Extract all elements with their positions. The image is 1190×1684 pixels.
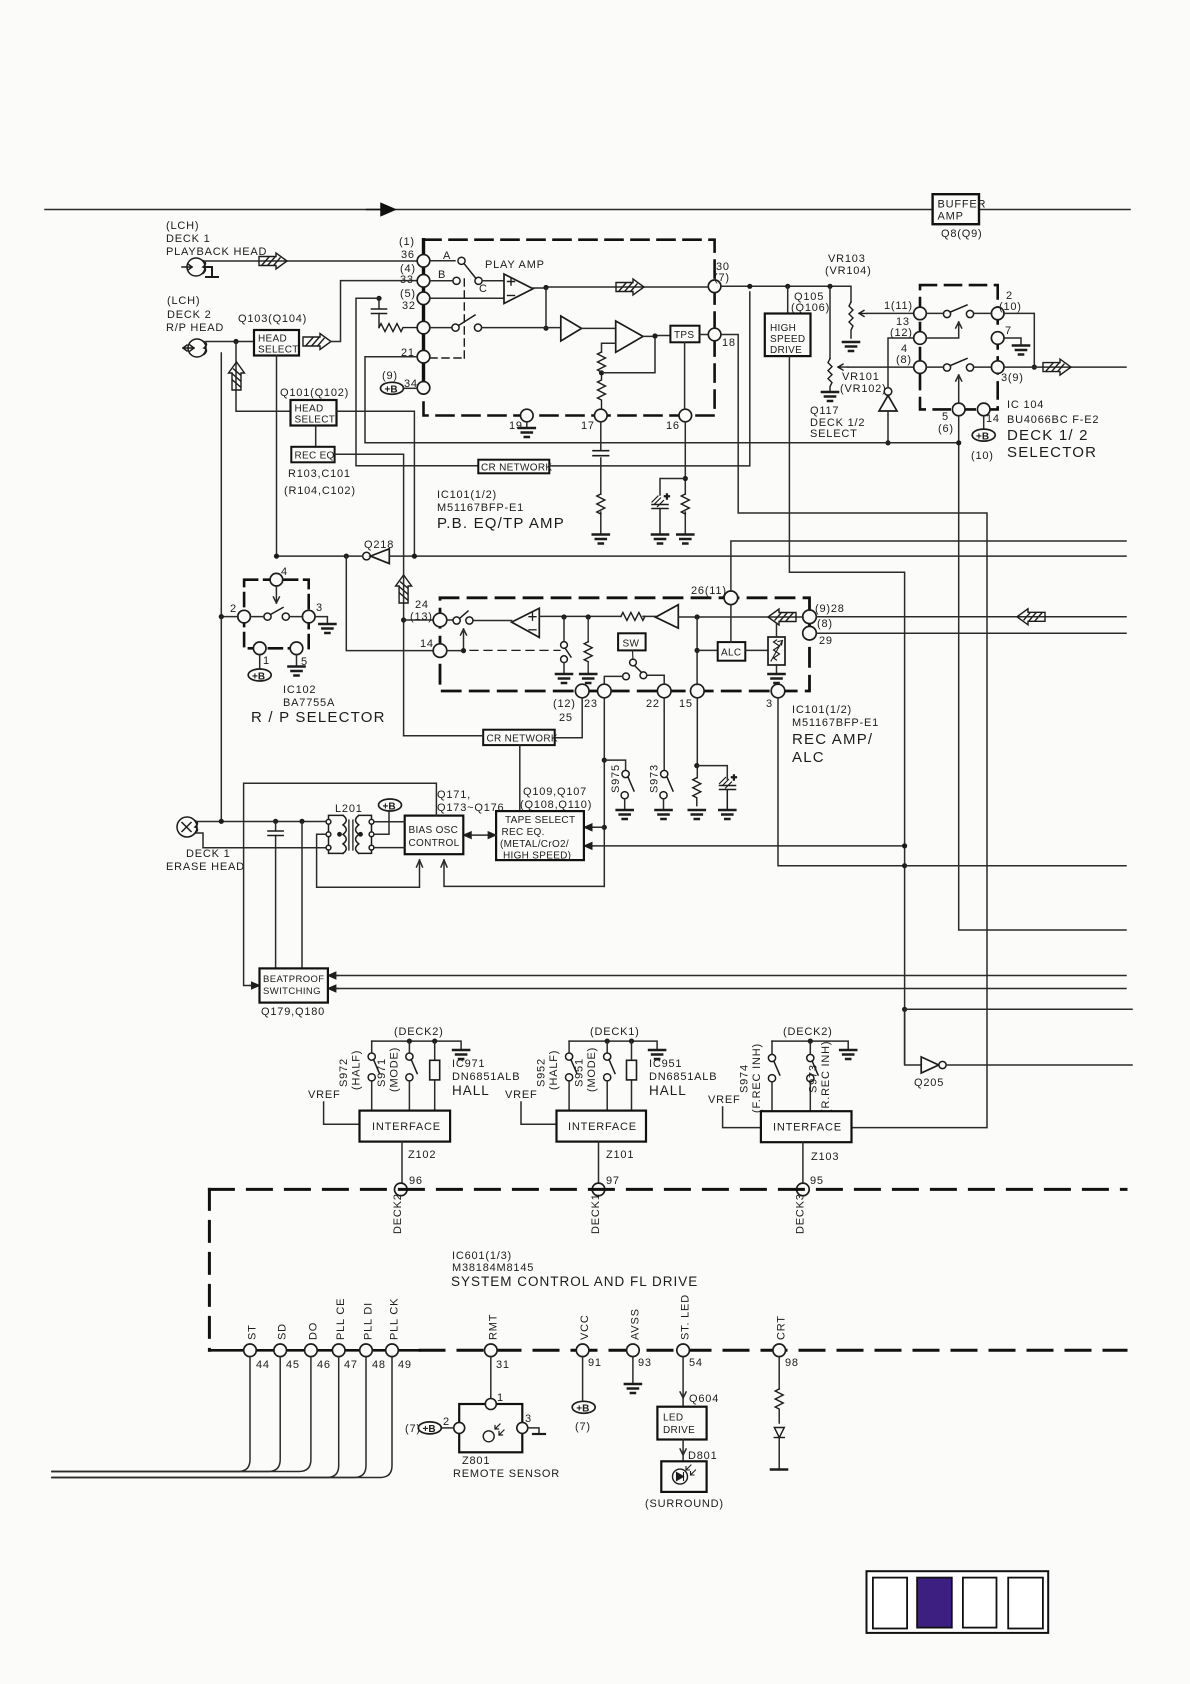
- svg-text:29: 29: [819, 635, 833, 647]
- IC102 R/P selector dashed box: [244, 580, 309, 649]
- svg-text:3(9): 3(9): [1001, 372, 1024, 384]
- ground at IC102 pin 3: [319, 624, 335, 633]
- wire amp to pin 28: [678, 616, 803, 618]
- wire Z103 to pin 95: [802, 1142, 804, 1183]
- ground at pin 93: [625, 1384, 641, 1393]
- VR (variable resistor in box): [768, 637, 785, 665]
- +B supply oval at IC104 pin 14: [971, 416, 995, 462]
- svg-text:IC101(1/2): IC101(1/2): [437, 489, 497, 501]
- svg-text:ALC: ALC: [792, 749, 825, 766]
- junction deck2 inh vertical at arrow line: [902, 843, 907, 848]
- svg-text:46: 46: [317, 1359, 331, 1371]
- svg-text:Q103(Q104): Q103(Q104): [238, 313, 307, 325]
- svg-text:BU4066BC F-E2: BU4066BC F-E2: [1007, 414, 1099, 426]
- label VR103 (VR104): [825, 253, 872, 277]
- potentiometer VR103: [849, 302, 867, 338]
- label Q105 (Q106): [791, 291, 830, 314]
- IC102 pin 5: [290, 642, 308, 668]
- svg-text:(Q106): (Q106): [791, 302, 830, 314]
- wire junction down to pin 15: [696, 617, 698, 685]
- IC601 pin 98 CRT: [773, 1315, 799, 1369]
- capacitor C in beatproof branch: [268, 821, 283, 968]
- wire CR network 2 bottom to tape select: [519, 745, 521, 811]
- svg-text:45: 45: [286, 1359, 300, 1371]
- label IC101(1/2) M51167BFP-E1 P.B. EQ/TP AMP: [437, 489, 565, 532]
- junction pin3 bus at deck2 inh vertical: [902, 863, 907, 868]
- IC104 dashed box: [920, 285, 998, 409]
- svg-text:(7): (7): [575, 1421, 591, 1433]
- ground at IC104 pin 7: [1013, 346, 1029, 355]
- dashed control line from pin 21 to switches: [430, 277, 464, 358]
- junction rail S971: [407, 1039, 412, 1044]
- svg-text:M51167BFP-E1: M51167BFP-E1: [437, 502, 524, 514]
- svg-text:96: 96: [409, 1175, 423, 1187]
- svg-text:P.B. EQ/TP AMP: P.B. EQ/TP AMP: [437, 515, 565, 532]
- CR NETWORK box 1: [478, 460, 552, 474]
- wire Q218 output node: [277, 555, 363, 557]
- wire VREF into interface Z102: [324, 1102, 360, 1124]
- wire high speed drive bottom down right down (to deck2 inh bus): [789, 356, 904, 1064]
- wire deck2 return continues down to erase head: [220, 617, 222, 822]
- Z801 pin 2: [443, 1416, 465, 1433]
- svg-text:L201: L201: [335, 803, 363, 815]
- wire pin 25(12) down to CR network 2: [555, 698, 583, 738]
- ground at VR: [769, 674, 785, 683]
- svg-text:(R.REC INH): (R.REC INH): [820, 1041, 832, 1113]
- svg-text:24: 24: [415, 599, 429, 611]
- junction erase head / deck2 return: [219, 819, 224, 824]
- IC101 P.B. EQ/TP AMP dashed box: [424, 240, 715, 416]
- SW box: [618, 633, 646, 650]
- wire stage2 to stage3: [582, 327, 616, 329]
- high speed drive box: [765, 314, 811, 357]
- wire pin 93 to ground: [632, 1357, 634, 1383]
- IC104 pin 1(11): [884, 300, 926, 320]
- IC601 pin 48 PLL DI: [360, 1302, 386, 1371]
- svg-text:VR103: VR103: [828, 253, 866, 265]
- +B supply oval at pin 91: [572, 1401, 595, 1433]
- svg-text:S951: S951: [574, 1058, 586, 1087]
- inverter Q218: [363, 549, 390, 564]
- buffer amp stage 2 triangle: [561, 316, 582, 341]
- svg-text:+B: +B: [976, 431, 989, 442]
- svg-text:RMT: RMT: [487, 1314, 499, 1340]
- wire pin 7 to ground: [1004, 338, 1021, 345]
- junction on feedback divider: [599, 370, 604, 375]
- main top bus wire: [45, 209, 1130, 211]
- +B supply oval at pin 34: [381, 382, 418, 395]
- ground below VR103: [843, 342, 859, 351]
- ground at shunt switch: [556, 674, 572, 683]
- LED DRIVE box: [657, 1407, 706, 1440]
- REC AMP pin 26(11): [691, 585, 738, 605]
- page marker box 3: [963, 1578, 997, 1628]
- wire Q117 input from control bus: [887, 411, 889, 443]
- svg-text:CR NETWORK: CR NETWORK: [481, 463, 552, 474]
- TPS box: [670, 326, 699, 343]
- svg-text:PLL CE: PLL CE: [335, 1298, 347, 1340]
- svg-text:DECK 1: DECK 1: [186, 848, 231, 860]
- hatched arrow (left) on pin28 bus: [1017, 609, 1045, 625]
- REC AMP pin 15: [679, 684, 704, 710]
- svg-text:DECK 1/ 2: DECK 1/ 2: [1007, 427, 1089, 444]
- svg-text:(HALF): (HALF): [351, 1050, 363, 1090]
- switch on feedback row: [430, 315, 482, 331]
- resistor R below pin 15: [693, 778, 701, 806]
- junction at stage3 output: [652, 333, 657, 338]
- wire Q218 output branch down to IC101 pin 14: [346, 556, 434, 651]
- IC104 pin 14: [977, 403, 999, 425]
- svg-text:Z102: Z102: [408, 1149, 436, 1161]
- IC601 pin 93 AVSS: [627, 1308, 652, 1369]
- svg-text:SWITCHING: SWITCHING: [263, 986, 321, 997]
- svg-text:(1): (1): [399, 236, 415, 248]
- IC601 pin 31 RMT: [485, 1314, 510, 1371]
- IC101 pin 19: [509, 409, 533, 432]
- svg-text:DO: DO: [307, 1322, 319, 1340]
- svg-text:R103,C101: R103,C101: [288, 468, 351, 480]
- svg-text:2: 2: [443, 1416, 450, 1428]
- wire IC102 pin 3 to ground: [315, 617, 327, 624]
- hatched arrow on IC104 output: [1043, 359, 1071, 375]
- ground below pin 15 resistor: [689, 810, 705, 819]
- resistor R below pin 98: [775, 1389, 783, 1423]
- wire resistor to stage2 amp: [643, 615, 656, 618]
- page marker box 2 (active, purple): [917, 1578, 952, 1628]
- svg-text:+B: +B: [252, 671, 265, 682]
- wire Q103 box bottom down to Q218 output node: [276, 356, 278, 557]
- capacitor C below pin 17: [593, 451, 609, 456]
- REC AMP pin 14: [420, 638, 447, 657]
- IC101 pin (feedback): [417, 321, 430, 334]
- svg-text:SELECTOR: SELECTOR: [1007, 444, 1097, 461]
- IC601 pin 44 ST: [244, 1324, 270, 1371]
- junction rail resistor: [432, 1039, 437, 1044]
- IC104 pin 7: [991, 325, 1012, 344]
- wire pin 98 down: [778, 1357, 780, 1389]
- svg-text:97: 97: [606, 1175, 620, 1187]
- wire pin 3(9) output to right: [1004, 366, 1126, 368]
- hall resistor deck2: [430, 1041, 440, 1111]
- svg-text:91: 91: [588, 1357, 602, 1369]
- resistor R feedback upper: [598, 352, 606, 373]
- svg-text:IC102: IC102: [283, 684, 316, 696]
- junction deck2-inh vertical / lower bus: [902, 1007, 907, 1012]
- svg-text:BIAS OSC: BIAS OSC: [409, 825, 459, 836]
- output amp stage 3 triangle: [616, 321, 643, 352]
- svg-text:Q8(Q9): Q8(Q9): [941, 228, 982, 240]
- signal-direction arrow on top bus: [366, 204, 395, 216]
- svg-text:(F.REC INH): (F.REC INH): [751, 1043, 763, 1113]
- inverter Q117: [879, 388, 897, 411]
- wire deck2-inh vertical into Q205: [905, 1009, 922, 1065]
- arrow into beatproof left: [252, 982, 260, 989]
- svg-text:15: 15: [679, 698, 693, 710]
- ground below electrolytic: [719, 810, 735, 819]
- transformer L201: [326, 815, 374, 853]
- wire pin3 bus to page edge: [905, 865, 1126, 867]
- wire VREF into interface Z101: [521, 1102, 557, 1124]
- svg-text:Q205: Q205: [914, 1077, 944, 1089]
- wire Q117 output up and to IC104 pin 13(12): [888, 338, 913, 388]
- IC104 switch 1: [927, 305, 992, 318]
- interface box Z102: [360, 1111, 451, 1142]
- svg-text:IC971: IC971: [452, 1058, 485, 1070]
- svg-text:19: 19: [509, 420, 523, 432]
- IC101 REC AMP/ALC dashed box: [440, 598, 810, 691]
- svg-text:+B: +B: [423, 1424, 436, 1435]
- svg-text:(HALF): (HALF): [548, 1050, 560, 1090]
- svg-text:(7): (7): [405, 1423, 421, 1435]
- svg-text:+B: +B: [576, 1404, 589, 1415]
- svg-text:S973: S973: [649, 764, 661, 793]
- svg-text:54: 54: [689, 1357, 703, 1369]
- wire tee to electrolytic: [660, 479, 685, 496]
- IC101 pin 36: [399, 236, 430, 267]
- svg-text:(10): (10): [999, 301, 1022, 313]
- svg-text:SELECT: SELECT: [258, 345, 299, 356]
- svg-text:BA7755A: BA7755A: [283, 697, 335, 709]
- ground at S975: [617, 810, 633, 819]
- IC104 pin 13(12): [890, 316, 926, 344]
- svg-text:REMOTE SENSOR: REMOTE SENSOR: [453, 1468, 560, 1480]
- hatched arrow on play amp output: [616, 279, 644, 295]
- svg-text:47: 47: [344, 1359, 358, 1371]
- deck 2 R/P head symbol: [183, 339, 207, 357]
- wire TPS to pin 18: [700, 334, 709, 336]
- op-amp U2 rec amp: [512, 608, 540, 637]
- ground at S973: [656, 810, 672, 819]
- wire pin 22 down to S973: [663, 698, 665, 771]
- wire switch to buffer triangle: [482, 327, 561, 329]
- wire L201 right centre tap to +B: [374, 811, 389, 834]
- svg-text:ALC: ALC: [721, 648, 741, 659]
- IC104 pin 5(6): [938, 403, 965, 435]
- svg-text:2: 2: [230, 603, 237, 615]
- ground at shunt resistor: [580, 674, 596, 683]
- junction output / pin15 drop: [695, 614, 700, 619]
- wire lower bus right to page edge: [905, 1008, 1132, 1010]
- wire bias osc top loop to beatproof: [244, 783, 437, 985]
- REC AMP pin 3: [766, 684, 785, 710]
- wire deck2 return down left vertical: [220, 353, 222, 617]
- interface box Z101: [557, 1111, 647, 1142]
- svg-text:LED: LED: [663, 1413, 683, 1424]
- amp stage (left-pointing triangle): [656, 605, 679, 629]
- wire pin 30 to VR103 top corner: [721, 286, 851, 302]
- ground below VR101: [822, 392, 838, 401]
- switch S951 (MODE): [574, 1041, 616, 1111]
- label (LCH) DECK 1 PLAYBACK HEAD: [166, 220, 267, 258]
- diode D below pin 98: [774, 1428, 784, 1469]
- hatched arrow after Q103 head select: [303, 334, 331, 350]
- svg-text:(LCH): (LCH): [166, 220, 199, 232]
- label IC101(1/2) M51167BFP-E1 REC AMP/ ALC: [792, 704, 879, 766]
- switch S975: [610, 764, 634, 809]
- svg-text:HEAD: HEAD: [258, 334, 287, 345]
- svg-text:INTERFACE: INTERFACE: [568, 1121, 637, 1133]
- label IC951 DN6851ALB HALL: [649, 1058, 717, 1098]
- wire VR top to signal line: [776, 623, 778, 637]
- REC AMP input switch: [447, 611, 473, 624]
- svg-text:Z801: Z801: [462, 1455, 490, 1467]
- svg-text:IC601(1/3): IC601(1/3): [452, 1250, 512, 1262]
- Z801 pin 3: [517, 1413, 532, 1433]
- svg-text:25: 25: [559, 712, 573, 724]
- svg-text:18: 18: [722, 337, 736, 349]
- svg-text:S973: S973: [808, 1064, 820, 1093]
- junction Q218 output / Q103 drop: [274, 554, 279, 559]
- wire CR network1 right up to pin30 bus: [549, 292, 750, 466]
- REC AMP pin 25(12): [553, 684, 589, 724]
- wire IC102 pin 2 to deck2 return vertical: [221, 616, 238, 618]
- svg-text:(7): (7): [714, 272, 730, 284]
- interface box Z103: [761, 1111, 852, 1142]
- +B supply oval at IC102 pin 1: [248, 669, 271, 682]
- label IC102 BA7755A R / P SELECTOR: [251, 684, 386, 726]
- wire VREF into interface Z103: [723, 1107, 761, 1128]
- svg-text:Q604: Q604: [689, 1393, 719, 1405]
- wire deck2 head to HEAD SELECT Q103: [206, 341, 254, 343]
- switch A/B/C input selector: [430, 250, 488, 295]
- label DECK 1 ERASE HEAD: [166, 848, 245, 873]
- svg-text:S952: S952: [536, 1058, 548, 1087]
- REC AMP pin 24(13): [410, 599, 447, 627]
- svg-text:DECK2: DECK2: [392, 1193, 404, 1234]
- svg-text:(VR102): (VR102): [840, 383, 887, 395]
- svg-text:22: 22: [646, 698, 660, 710]
- svg-text:(12): (12): [890, 327, 913, 339]
- svg-text:IC951: IC951: [649, 1058, 682, 1070]
- svg-text:ERASE HEAD: ERASE HEAD: [166, 861, 245, 873]
- svg-text:(8): (8): [896, 354, 912, 366]
- svg-text:(6): (6): [938, 423, 954, 435]
- resistor R (feedback input): [379, 324, 417, 332]
- svg-text:DRIVE: DRIVE: [770, 345, 802, 356]
- junction rail S973 inh: [808, 1039, 813, 1044]
- junction rail resistor deck1: [629, 1039, 634, 1044]
- IC601 pin 95: [797, 1175, 824, 1196]
- feedback tap wire from stage3 left edge: [602, 343, 616, 352]
- junction at pin 32 wire: [376, 296, 381, 301]
- Z801 remote sensor box: [459, 1404, 522, 1452]
- svg-text:CONTROL: CONTROL: [409, 838, 460, 849]
- junction at play amp output: [543, 285, 548, 290]
- svg-text:M51167BFP-E1: M51167BFP-E1: [792, 717, 879, 729]
- svg-text:REC AMP/: REC AMP/: [792, 731, 873, 748]
- svg-text:(DECK2): (DECK2): [783, 1026, 833, 1038]
- IC104 switch 2: [927, 359, 992, 372]
- svg-text:S972: S972: [338, 1058, 350, 1087]
- svg-text:(VR104): (VR104): [825, 265, 872, 277]
- wire LED drive to D801 with arrow: [680, 1440, 686, 1462]
- svg-text:DECK1: DECK1: [590, 1193, 602, 1234]
- wire IC101 pin 18 route right-down-right: [721, 335, 987, 1128]
- label Z801 REMOTE SENSOR: [453, 1455, 560, 1480]
- svg-text:DECK 2: DECK 2: [167, 309, 212, 321]
- svg-text:14: 14: [420, 638, 434, 650]
- wire Q218 input bus to page edge: [389, 555, 1126, 557]
- hatched arrow (up) below deck2 junction: [229, 362, 245, 390]
- svg-text:SW: SW: [623, 639, 640, 650]
- hall group deck1 top rail: [569, 1041, 657, 1049]
- svg-text:(DECK2): (DECK2): [394, 1026, 444, 1038]
- svg-text:ST: ST: [247, 1324, 259, 1340]
- arrow into bias osc right leg: [441, 860, 447, 867]
- IC104 pin 3(9): [991, 361, 1023, 384]
- wire beatproof bus upper from right: [337, 975, 1126, 977]
- hall resistor deck1: [627, 1041, 637, 1111]
- svg-text:(8): (8): [817, 618, 833, 630]
- svg-text:(12): (12): [553, 698, 576, 710]
- svg-text:HIGH SPEED): HIGH SPEED): [503, 851, 571, 862]
- IC102 pin 1: [253, 642, 270, 667]
- wire pin 31 to Z801: [490, 1357, 492, 1404]
- arrow into bias osc left leg: [417, 860, 423, 867]
- svg-text:CR NETWORK: CR NETWORK: [487, 734, 558, 745]
- svg-text:Q171,: Q171,: [437, 789, 471, 801]
- svg-text:93: 93: [638, 1357, 652, 1369]
- svg-text:5: 5: [942, 411, 949, 423]
- wire L201 bottom right to bias osc: [374, 847, 405, 849]
- svg-text:44: 44: [256, 1359, 270, 1371]
- wire Z801 pin 3 to ground: [528, 1428, 539, 1434]
- svg-text:(METAL/CrO2/: (METAL/CrO2/: [500, 839, 569, 850]
- wire C contact to op-amp + input: [482, 280, 504, 282]
- wire L201 top right to bias osc: [374, 821, 405, 823]
- inh group top rail: [772, 1041, 848, 1049]
- wire Q101 output right then down to Q218 input node: [337, 411, 415, 556]
- wire erase head top to L201: [197, 821, 326, 823]
- svg-text:BUFFER: BUFFER: [938, 199, 987, 211]
- wire IC104 pin 2(10) to output node: [1004, 313, 1034, 367]
- junction rail S951: [605, 1039, 610, 1044]
- series resistor R: [621, 612, 645, 620]
- capacitor C (pin32 branch): [372, 298, 387, 327]
- svg-text:(DECK1): (DECK1): [590, 1026, 640, 1038]
- wire Q205 output right to page edge: [946, 1064, 1132, 1066]
- label (LCH) DECK 2 R/P HEAD: [166, 295, 224, 334]
- svg-text:32: 32: [402, 300, 416, 312]
- junction Q218 output / pin14 branch: [344, 554, 349, 559]
- REC AMP pin 23: [584, 684, 611, 710]
- svg-text:SD: SD: [277, 1323, 289, 1340]
- control arrow from IC102 pin 4: [273, 586, 279, 603]
- svg-text:S974: S974: [739, 1064, 751, 1093]
- IC101 pin 21: [401, 347, 430, 363]
- svg-text:PLAY AMP: PLAY AMP: [485, 259, 545, 271]
- svg-text:DN6851ALB: DN6851ALB: [649, 1071, 717, 1083]
- page marker box 4: [1008, 1578, 1043, 1629]
- svg-text:Q173~Q176: Q173~Q176: [437, 802, 504, 814]
- REC AMP pin 22: [646, 684, 671, 710]
- electrolytic capacitor C+: [720, 773, 738, 809]
- potentiometer VR101: [828, 359, 848, 391]
- svg-text:(Q108,Q110): (Q108,Q110): [520, 799, 592, 811]
- IC102 internal switch: [250, 608, 302, 621]
- label IC601(1/3) M38184M8145 SYSTEM CONTROL AND FL DRIVE: [451, 1250, 698, 1289]
- svg-text:Q117: Q117: [810, 405, 839, 417]
- wire junction down to high speed drive: [787, 286, 789, 313]
- svg-text:HEAD: HEAD: [295, 404, 324, 415]
- svg-text:PLAYBACK HEAD: PLAYBACK HEAD: [166, 246, 267, 258]
- svg-text:PLL DI: PLL DI: [363, 1302, 375, 1340]
- deck 1 erase head symbol: [177, 817, 198, 837]
- svg-text:49: 49: [398, 1359, 412, 1371]
- svg-text:(5): (5): [400, 288, 416, 300]
- ALC box: [718, 642, 746, 661]
- svg-text:BEATPROOF: BEATPROOF: [263, 974, 325, 985]
